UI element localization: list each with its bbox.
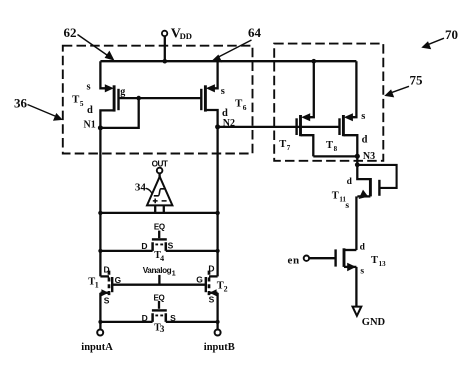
terminal en xyxy=(288,254,310,266)
svg-text:3: 3 xyxy=(160,324,165,334)
svg-text:S: S xyxy=(104,296,110,306)
label 75 xyxy=(384,72,423,97)
node N1 xyxy=(84,119,103,130)
svg-text:DD: DD xyxy=(180,31,192,41)
svg-text:T: T xyxy=(332,191,339,202)
junction top rail to T7 xyxy=(312,59,317,64)
wire T4 row rail xyxy=(98,249,219,253)
svg-text:T: T xyxy=(72,94,80,106)
svg-text:s: s xyxy=(221,86,225,97)
svg-text:d: d xyxy=(362,135,368,146)
svg-text:D: D xyxy=(208,264,214,274)
svg-text:T: T xyxy=(371,255,378,266)
svg-text:inputB: inputB xyxy=(204,342,235,353)
transistor T6 xyxy=(201,61,247,127)
transistor T1 xyxy=(88,264,121,322)
svg-text:Vanalog: Vanalog xyxy=(143,266,172,275)
svg-text:G: G xyxy=(115,275,121,285)
svg-text:6: 6 xyxy=(243,103,247,112)
svg-text:4: 4 xyxy=(160,254,164,263)
svg-text:d: d xyxy=(87,105,93,116)
wire op-amp input rail xyxy=(98,211,220,215)
svg-text:70: 70 xyxy=(445,27,458,42)
svg-text:11: 11 xyxy=(339,196,346,204)
svg-text:T: T xyxy=(326,140,333,151)
svg-text:N3: N3 xyxy=(363,151,375,162)
transistor T2 xyxy=(196,264,227,322)
svg-text:D: D xyxy=(104,264,110,274)
svg-text:1: 1 xyxy=(95,281,99,290)
svg-text:N1: N1 xyxy=(84,119,96,130)
label 70 xyxy=(421,27,458,49)
svg-text:d: d xyxy=(347,177,353,187)
op-amp 34 xyxy=(147,177,172,213)
svg-text:5: 5 xyxy=(80,99,84,108)
node N2 xyxy=(215,118,235,129)
svg-text:13: 13 xyxy=(379,260,387,268)
svg-text:64: 64 xyxy=(248,25,262,40)
svg-text:36: 36 xyxy=(14,96,28,111)
label 34 xyxy=(135,181,152,193)
transistor T7 xyxy=(279,61,314,156)
transistor T4 (EQ) xyxy=(141,223,173,263)
svg-text:S: S xyxy=(168,241,174,251)
transistor T13 xyxy=(309,242,386,306)
svg-text:s: s xyxy=(87,81,91,92)
svg-text:75: 75 xyxy=(410,72,424,87)
svg-text:en: en xyxy=(288,254,300,266)
ground GND xyxy=(353,307,386,328)
svg-text:S: S xyxy=(209,295,215,305)
node N3 xyxy=(355,151,375,167)
terminal inputB xyxy=(204,322,235,353)
svg-text:T: T xyxy=(279,139,286,150)
svg-text:8: 8 xyxy=(334,145,338,153)
dashed box 75 xyxy=(274,44,383,161)
label 62 xyxy=(64,25,115,60)
terminal VDD xyxy=(162,26,192,63)
svg-text:s: s xyxy=(360,267,364,277)
svg-text:7: 7 xyxy=(287,144,291,152)
transistor T8 xyxy=(326,61,368,156)
label 36 xyxy=(14,96,63,121)
wire T1-T2 gate rail xyxy=(112,284,206,286)
svg-text:inputA: inputA xyxy=(81,342,113,353)
svg-text:s: s xyxy=(361,111,365,122)
svg-text:d: d xyxy=(360,242,366,252)
wire left rail N1 down xyxy=(99,128,101,277)
node Vanalog1 xyxy=(143,266,176,285)
terminal OUT xyxy=(152,159,168,177)
terminal inputA xyxy=(81,322,113,353)
svg-text:T: T xyxy=(235,98,243,110)
svg-text:D: D xyxy=(141,241,147,251)
svg-text:62: 62 xyxy=(64,25,77,40)
svg-text:g: g xyxy=(120,86,125,97)
label 64 xyxy=(212,25,261,62)
wire VDD rail xyxy=(100,60,356,62)
wire N2 to T7/T8 gates xyxy=(218,126,340,128)
svg-text:1: 1 xyxy=(172,271,176,278)
wire T7 drain to N3 xyxy=(313,155,357,157)
svg-text:G: G xyxy=(196,275,203,285)
svg-text:EQ: EQ xyxy=(154,223,165,232)
svg-text:34: 34 xyxy=(135,181,147,193)
svg-text:EQ: EQ xyxy=(154,293,165,302)
wire right rail N2 down xyxy=(216,127,218,277)
dashed box 36 xyxy=(63,46,253,154)
wire T5-T6 gate net to N1 xyxy=(100,96,201,128)
transistor T3 (EQ) xyxy=(142,293,176,334)
transistor T11 xyxy=(332,165,397,250)
transistor T5 xyxy=(72,61,125,128)
svg-text:2: 2 xyxy=(224,285,228,294)
wire T3 row rail xyxy=(98,320,219,324)
svg-text:GND: GND xyxy=(362,317,386,328)
